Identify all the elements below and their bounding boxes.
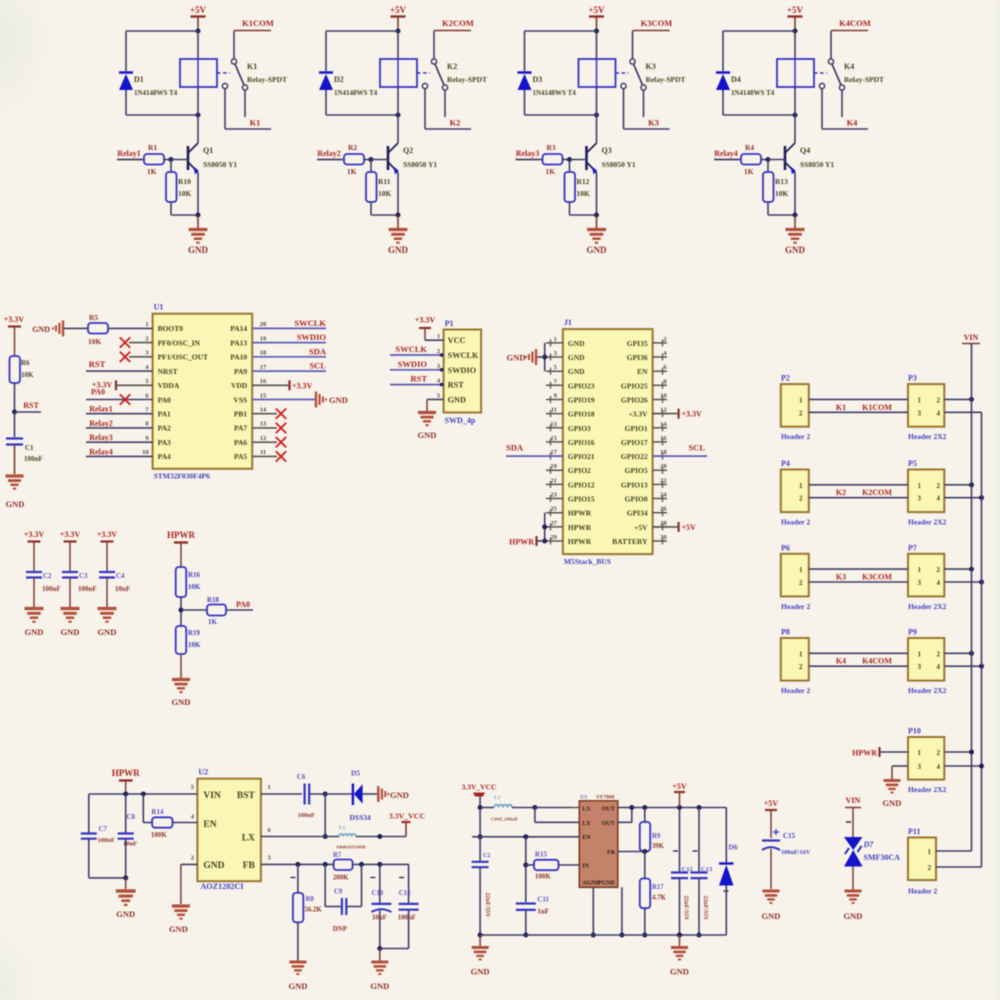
svg-text:PGND: PGND	[598, 881, 616, 887]
svg-text:12: 12	[660, 407, 667, 414]
svg-text:PF0/OSC_IN: PF0/OSC_IN	[158, 338, 201, 347]
wire OUT2	[618, 821, 632, 823]
wire C9 left	[324, 864, 326, 906]
op-amp U2 AOZ1282CI body	[197, 779, 261, 882]
svg-text:D6: D6	[729, 843, 738, 852]
wire	[768, 214, 795, 216]
relay K3 contact NC	[630, 59, 635, 64]
svg-text:1N4148WS T4: 1N4148WS T4	[134, 89, 178, 97]
svg-text:GPIO25: GPIO25	[621, 381, 648, 390]
junction	[369, 157, 374, 162]
wire LX tie	[534, 808, 536, 823]
ground label GND	[370, 981, 389, 991]
svg-text:+5V: +5V	[764, 799, 779, 808]
svg-text:+3.3V: +3.3V	[4, 315, 25, 324]
capacitor C3 body	[62, 572, 78, 578]
net label K3	[648, 118, 659, 128]
svg-text:GPIO13: GPIO13	[621, 480, 648, 489]
wire C8 bottom	[125, 839, 127, 878]
ground P10	[884, 781, 901, 793]
svg-text:10: 10	[660, 393, 667, 400]
J1 pin names	[568, 339, 648, 546]
svg-text:PA0: PA0	[236, 600, 250, 609]
svg-text:2: 2	[937, 650, 941, 658]
no-connect X pin2	[120, 337, 130, 347]
svg-text:PA2: PA2	[158, 424, 171, 433]
svg-text:Header 2: Header 2	[908, 887, 937, 896]
wire coil bottom	[397, 87, 399, 115]
wire emitter	[596, 173, 598, 216]
wire contact stub	[444, 90, 446, 117]
diode D4 1N4148WS	[716, 73, 730, 91]
ground R8	[289, 962, 306, 974]
wire C3 to gnd	[69, 578, 71, 608]
svg-text:GPI34: GPI34	[627, 509, 648, 518]
net label SWDIO	[297, 332, 327, 342]
svg-text:K4COM: K4COM	[839, 18, 871, 28]
net label K1COM	[242, 18, 274, 28]
wire to VIN rail	[944, 652, 971, 654]
C12 polarity mark	[673, 850, 678, 852]
junction	[196, 29, 201, 34]
svg-text:VIN: VIN	[846, 796, 861, 805]
op-amp U1 STM32F030F4P6 body	[153, 314, 253, 469]
wire	[326, 30, 398, 32]
svg-text:P7: P7	[908, 543, 917, 552]
svg-text:PA5: PA5	[234, 452, 247, 461]
transistor Q3 SS8050	[587, 143, 598, 175]
P6 pin numbers	[799, 566, 803, 587]
wire 5V rail	[632, 807, 727, 809]
wire VIN to P11 pin1	[936, 850, 972, 852]
wire SCL	[653, 455, 707, 457]
wire coil lead	[596, 59, 598, 87]
svg-text:2: 2	[799, 579, 803, 587]
net label K2COM	[442, 18, 474, 28]
svg-text:200K: 200K	[333, 875, 349, 882]
wire coil top	[397, 31, 399, 59]
wire U1 pin3 stub	[129, 356, 153, 358]
C10 polarity mark	[370, 877, 375, 879]
svg-text:Relay1: Relay1	[117, 149, 141, 158]
svg-text:L1: L1	[339, 825, 346, 831]
resistor R11 body	[366, 172, 377, 202]
resistor R17 labels	[652, 884, 666, 902]
ground label GND	[6, 499, 25, 509]
svg-text:Relay1: Relay1	[89, 405, 113, 414]
svg-text:PF1/OSC_OUT: PF1/OSC_OUT	[158, 353, 208, 362]
junction	[377, 862, 382, 867]
resistor R4 body	[741, 154, 761, 165]
no-connect X pin11	[276, 451, 286, 461]
svg-text:SWCLK: SWCLK	[395, 344, 427, 354]
transistor Q2 labels	[403, 146, 437, 169]
capacitor C13 body	[691, 873, 708, 879]
svg-text:19: 19	[550, 463, 557, 470]
power HPWR divider	[167, 530, 195, 567]
svg-text:K4: K4	[847, 118, 859, 128]
relay K2 name labels	[447, 62, 487, 84]
wire R15 rail	[525, 837, 527, 902]
capacitor C4 body	[99, 572, 115, 578]
no-connect X pin12	[276, 437, 286, 447]
wire SDA	[506, 455, 563, 457]
wire to R1x	[370, 160, 372, 173]
net label K3COM	[862, 573, 892, 582]
wire	[325, 793, 352, 795]
svg-text:21: 21	[550, 477, 557, 484]
svg-text:LX: LX	[582, 807, 591, 813]
ground C1	[6, 476, 24, 489]
junction	[478, 933, 483, 938]
ground P1	[418, 413, 436, 426]
svg-text:100nF: 100nF	[98, 837, 115, 844]
power HPWR P10	[852, 747, 879, 758]
svg-text:2: 2	[663, 336, 666, 343]
wire to LX2	[535, 821, 579, 823]
R8 pin mark	[291, 877, 296, 879]
wire D6 bottom	[725, 886, 727, 936]
net label K4	[836, 657, 846, 666]
ground label GND	[61, 627, 80, 637]
svg-text:HPWR: HPWR	[167, 530, 195, 540]
P8 pin numbers	[799, 650, 803, 671]
capacitor C11 labels	[537, 896, 549, 916]
net label Relay4	[89, 447, 113, 456]
svg-text:2: 2	[437, 348, 440, 355]
capacitor C15 body	[762, 841, 780, 851]
U3 designator	[580, 795, 587, 801]
wire	[722, 31, 724, 71]
svg-text:GND: GND	[6, 499, 25, 509]
junction	[969, 651, 974, 656]
svg-text:1: 1	[918, 749, 922, 757]
ground U3 right	[671, 948, 688, 960]
wire	[116, 384, 153, 386]
svg-text:D4: D4	[731, 75, 741, 84]
wire	[371, 214, 398, 216]
capacitor C2 input labels	[483, 853, 490, 918]
svg-text:C2: C2	[43, 572, 52, 580]
resistor R19 labels	[188, 629, 201, 649]
svg-text:C2: C2	[483, 853, 490, 859]
svg-text:GND: GND	[418, 430, 437, 440]
junction	[169, 157, 174, 162]
svg-text:100K: 100K	[535, 873, 552, 881]
junction	[377, 834, 382, 839]
connector P5 body	[908, 470, 944, 513]
svg-text:NR4018T100M: NR4018T100M	[335, 845, 366, 850]
wire NO bottom	[225, 128, 271, 130]
wire gnd stub left	[479, 935, 481, 946]
junction	[793, 29, 798, 34]
wire R8 top	[297, 864, 299, 893]
svg-text:1: 1	[799, 396, 803, 404]
wire U2 GND pin	[181, 863, 198, 865]
ground label GND	[98, 627, 117, 637]
capacitor C14 body	[399, 904, 419, 910]
capacitor C2 body	[26, 572, 42, 578]
wire R17 top	[644, 851, 646, 878]
wire to contact	[433, 31, 435, 59]
connector P4 body	[781, 470, 809, 513]
net label VIN	[846, 796, 861, 805]
svg-text:GPIO18: GPIO18	[568, 410, 595, 419]
svg-text:4: 4	[937, 495, 941, 503]
resistor R12 labels	[577, 177, 591, 198]
op-amp U3 SY7088 body	[579, 801, 618, 888]
resistor R8 body	[293, 893, 303, 922]
wire EN	[480, 836, 579, 838]
svg-text:Header 2X2: Header 2X2	[908, 686, 947, 695]
svg-text:EN: EN	[637, 367, 648, 376]
svg-text:P9: P9	[908, 628, 917, 637]
net label SWCLK	[294, 318, 326, 328]
wire	[569, 202, 571, 215]
connector J1 M5Stack_BUS body	[563, 329, 653, 554]
junction	[532, 805, 537, 810]
wire coil lead	[397, 59, 399, 87]
diode D2 labels	[334, 75, 378, 97]
capacitor C8 body	[118, 834, 134, 839]
transistor Q1 labels	[203, 146, 237, 169]
svg-text:GPI35: GPI35	[627, 339, 648, 348]
diode D2 1N4148WS	[319, 73, 333, 91]
resistor R13 labels	[775, 177, 789, 198]
wire	[309, 793, 325, 795]
wire	[390, 354, 444, 356]
wire U1 pin11 stub	[252, 455, 277, 457]
junction	[969, 750, 974, 755]
svg-text:10K: 10K	[188, 583, 201, 591]
wire	[425, 339, 444, 341]
net label PA0	[236, 600, 250, 609]
svg-text:HPWR: HPWR	[112, 768, 140, 778]
svg-text:K2: K2	[447, 62, 457, 71]
P8 part name	[781, 686, 810, 695]
wire VIN rail	[971, 344, 973, 852]
svg-text:16: 16	[260, 378, 267, 385]
svg-text:SS8050 Y1: SS8050 Y1	[403, 160, 437, 169]
wire K1 row1	[809, 398, 908, 400]
wire OUT tie	[631, 808, 633, 823]
ground C3	[61, 609, 80, 622]
svg-text:Header 2: Header 2	[781, 432, 810, 441]
capacitor C10 body	[371, 904, 391, 912]
junction	[323, 834, 328, 839]
ground label GND	[844, 911, 863, 921]
P4 part name	[781, 518, 810, 527]
svg-text:P11: P11	[908, 827, 920, 836]
connector P9 body	[908, 638, 944, 681]
wire to gnd	[197, 215, 199, 228]
net label K1	[836, 403, 846, 412]
svg-text:GPIO19: GPIO19	[568, 396, 595, 405]
J1 designator	[564, 318, 572, 327]
wire U1 pin13 stub	[252, 427, 277, 429]
svg-text:STM32F030F4P6: STM32F030F4P6	[154, 472, 210, 481]
svg-text:U3: U3	[580, 795, 587, 801]
junction	[523, 834, 528, 839]
net label Relay1	[117, 149, 141, 158]
wire rail2	[981, 412, 983, 867]
power +5V U3	[672, 782, 687, 792]
svg-text:2: 2	[145, 335, 148, 342]
svg-text:K1: K1	[836, 403, 846, 412]
wire	[86, 441, 153, 443]
svg-text:2: 2	[799, 663, 803, 671]
svg-text:Q1: Q1	[203, 146, 213, 155]
svg-text:PA10: PA10	[230, 353, 247, 362]
svg-text:R12: R12	[577, 177, 590, 186]
svg-text:K2COM: K2COM	[862, 488, 892, 497]
wire	[181, 609, 253, 611]
svg-text:P1: P1	[445, 319, 454, 328]
P11 part name	[908, 887, 937, 896]
resistor R7 body	[334, 860, 353, 871]
resistor R16 body	[176, 567, 187, 597]
svg-text:Relay4: Relay4	[714, 149, 738, 158]
net label Relay2	[317, 149, 341, 158]
net label Relay2	[89, 419, 113, 428]
U1 designator	[154, 303, 164, 312]
P2 pin numbers	[799, 396, 803, 417]
svg-text:SWCLK: SWCLK	[294, 318, 326, 328]
P1 part name SWD_4p	[445, 416, 476, 425]
svg-text:GND: GND	[172, 697, 191, 707]
svg-text:VCC: VCC	[448, 336, 466, 345]
relay K2 contact NO	[422, 83, 427, 88]
relay K4 contact NO	[819, 83, 824, 88]
wire	[480, 807, 494, 809]
svg-text:LX: LX	[242, 834, 255, 844]
junction	[979, 580, 984, 585]
capacitor C14 labels	[398, 890, 416, 922]
junction	[523, 933, 528, 938]
ground symbol U1 pin1	[53, 320, 63, 336]
svg-text:GND: GND	[762, 911, 781, 921]
D6 pin mark	[724, 890, 729, 892]
P7 part name	[908, 602, 947, 611]
relay K4 blade	[832, 64, 841, 85]
power +5V relay 2	[390, 5, 407, 31]
power +3.3V C3	[60, 530, 81, 571]
svg-text:19: 19	[260, 335, 267, 342]
resistor R10 labels	[178, 177, 192, 198]
svg-text:M5Stack_BUS: M5Stack_BUS	[564, 557, 611, 566]
svg-text:R1: R1	[148, 143, 157, 152]
svg-text:R3: R3	[547, 143, 556, 152]
pin dot	[440, 368, 444, 372]
svg-text:HPWR: HPWR	[509, 538, 534, 547]
diode D5 labels	[350, 769, 372, 823]
capacitor C3 labels	[78, 572, 97, 593]
wire BST-LX link	[324, 794, 326, 837]
no-connect X pin13	[276, 423, 286, 433]
wire to R1x	[569, 160, 571, 173]
svg-text:+5V: +5V	[682, 523, 697, 532]
svg-text:4: 4	[937, 763, 941, 771]
net label PA0	[91, 388, 105, 397]
wire	[252, 384, 288, 386]
wire HPWR to P10	[881, 751, 909, 753]
svg-text:D2: D2	[334, 75, 344, 84]
svg-text:3: 3	[918, 409, 922, 417]
svg-text:16: 16	[660, 435, 667, 442]
power +3.3V R6	[4, 315, 25, 356]
LX1 stub	[571, 807, 579, 809]
P3 part name	[908, 432, 947, 441]
wire K2 row1	[809, 484, 908, 486]
wire K COM label underline	[633, 30, 670, 32]
wire to gnd C8	[125, 878, 127, 889]
relay K4 dashed link	[814, 72, 827, 74]
svg-text:10K: 10K	[378, 189, 392, 198]
diode D6 label	[729, 843, 738, 852]
svg-text:29: 29	[550, 534, 557, 541]
wire K3 row2	[809, 581, 908, 583]
wire VIN underline D7	[845, 807, 861, 809]
resistor R14 labels	[151, 808, 168, 839]
svg-text:Header 2: Header 2	[781, 518, 810, 527]
net label RST	[89, 359, 106, 369]
wire Relay label underline	[117, 159, 142, 161]
wire	[317, 159, 344, 161]
svg-text:+5V: +5V	[588, 5, 605, 15]
wire R9 top	[644, 808, 646, 823]
svg-text:Header 2: Header 2	[781, 686, 810, 695]
svg-text:R15: R15	[535, 851, 548, 859]
svg-text:SY7088: SY7088	[596, 795, 614, 801]
wire	[714, 159, 741, 161]
resistor R5 body	[88, 323, 108, 334]
svg-text:C3: C3	[79, 572, 88, 580]
power HPWR U2	[112, 768, 140, 781]
svg-text:Header 2X2: Header 2X2	[908, 432, 947, 441]
junction	[123, 875, 128, 880]
wire	[86, 427, 153, 429]
J1 pin numbers	[550, 336, 667, 541]
junction	[542, 355, 547, 360]
svg-text:100nF: 100nF	[78, 585, 97, 593]
diode D1 labels	[134, 75, 178, 97]
transistor Q2 SS8050	[388, 143, 399, 175]
svg-text:2: 2	[937, 482, 941, 490]
resistor R3 body	[543, 154, 563, 165]
svg-text:D3: D3	[533, 75, 543, 84]
wire	[516, 159, 543, 161]
wire left rail upper	[479, 808, 481, 837]
svg-text:GND: GND	[390, 790, 409, 800]
relay K3 blade	[634, 64, 643, 85]
P7 designator	[908, 543, 917, 552]
svg-text:+3.3V: +3.3V	[97, 530, 118, 539]
svg-text:SMF30CA: SMF30CA	[864, 853, 901, 862]
svg-text:10K: 10K	[188, 641, 201, 649]
P5 part name	[908, 518, 947, 527]
wire K COM label underline	[434, 30, 471, 32]
svg-text:Q3: Q3	[602, 146, 612, 155]
svg-text:SS8050 Y1: SS8050 Y1	[203, 160, 237, 169]
net label Relay3	[516, 149, 540, 158]
svg-text:K1: K1	[247, 62, 257, 71]
svg-text:R9: R9	[652, 833, 661, 840]
relay K1 contact NC	[231, 59, 236, 64]
diode D1 1N4148WS	[119, 73, 133, 91]
svg-text:C6: C6	[297, 773, 306, 781]
power +3.3V VDD	[290, 380, 313, 390]
junction	[677, 933, 682, 938]
